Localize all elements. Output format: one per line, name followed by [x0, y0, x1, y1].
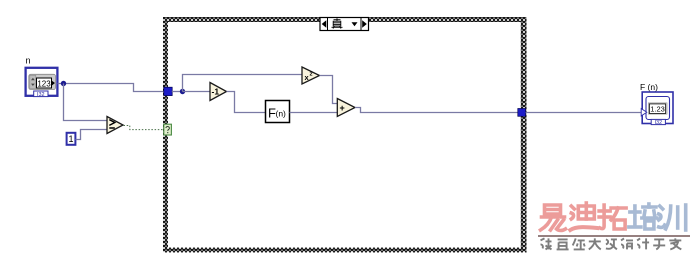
wire F(n) to adder bottom	[290, 112, 338, 114]
svg-text:F (n): F (n)	[640, 82, 658, 92]
selector tunnel ?	[164, 124, 172, 135]
numeric control n	[26, 68, 58, 98]
decrement -1	[210, 83, 227, 101]
watermark divider line	[538, 235, 690, 237]
case selector label "真"	[320, 18, 369, 31]
indicator label F (n)	[640, 82, 658, 92]
wire junction to decrement	[183, 91, 211, 93]
wire tunnel to junction	[172, 91, 183, 93]
node junction at n	[61, 81, 66, 86]
svg-text:(n): (n)	[276, 109, 287, 119]
svg-text:I32: I32	[654, 120, 662, 126]
indicator F(n)	[641, 92, 673, 126]
wire n to left tunnel	[58, 84, 165, 92]
svg-text:n: n	[26, 56, 31, 66]
wire 1 to comparator	[76, 130, 108, 140]
comparator >=	[107, 117, 123, 134]
node junction inside case	[180, 89, 185, 94]
wire decrement to F(n)	[227, 92, 266, 113]
wire x2 to adder top	[320, 76, 338, 104]
right tunnel	[518, 109, 526, 117]
boolean wire to selector tunnel	[124, 126, 164, 130]
subVI F(n)	[266, 101, 290, 123]
left tunnel	[164, 87, 172, 95]
x squared node	[302, 67, 320, 84]
svg-text:+: +	[340, 103, 345, 113]
watermark logo text (salmon + blue)	[541, 203, 686, 231]
constant 1	[67, 133, 76, 145]
svg-text:I32: I32	[37, 92, 45, 98]
svg-text:-1: -1	[212, 87, 220, 97]
svg-text:123: 123	[37, 79, 51, 88]
wire adder to right tunnel	[355, 108, 521, 113]
svg-text:1.23: 1.23	[650, 105, 665, 114]
wire right tunnel to indicator	[526, 112, 641, 114]
wire n down to comparator	[64, 84, 108, 121]
svg-text:2: 2	[310, 72, 313, 78]
case structure frame	[163, 17, 527, 253]
wire junction up to x2	[183, 75, 303, 92]
adder +	[337, 99, 355, 117]
svg-text:1: 1	[68, 134, 73, 144]
numeric control n label	[26, 56, 31, 66]
watermark subtitle gray text	[541, 238, 682, 249]
